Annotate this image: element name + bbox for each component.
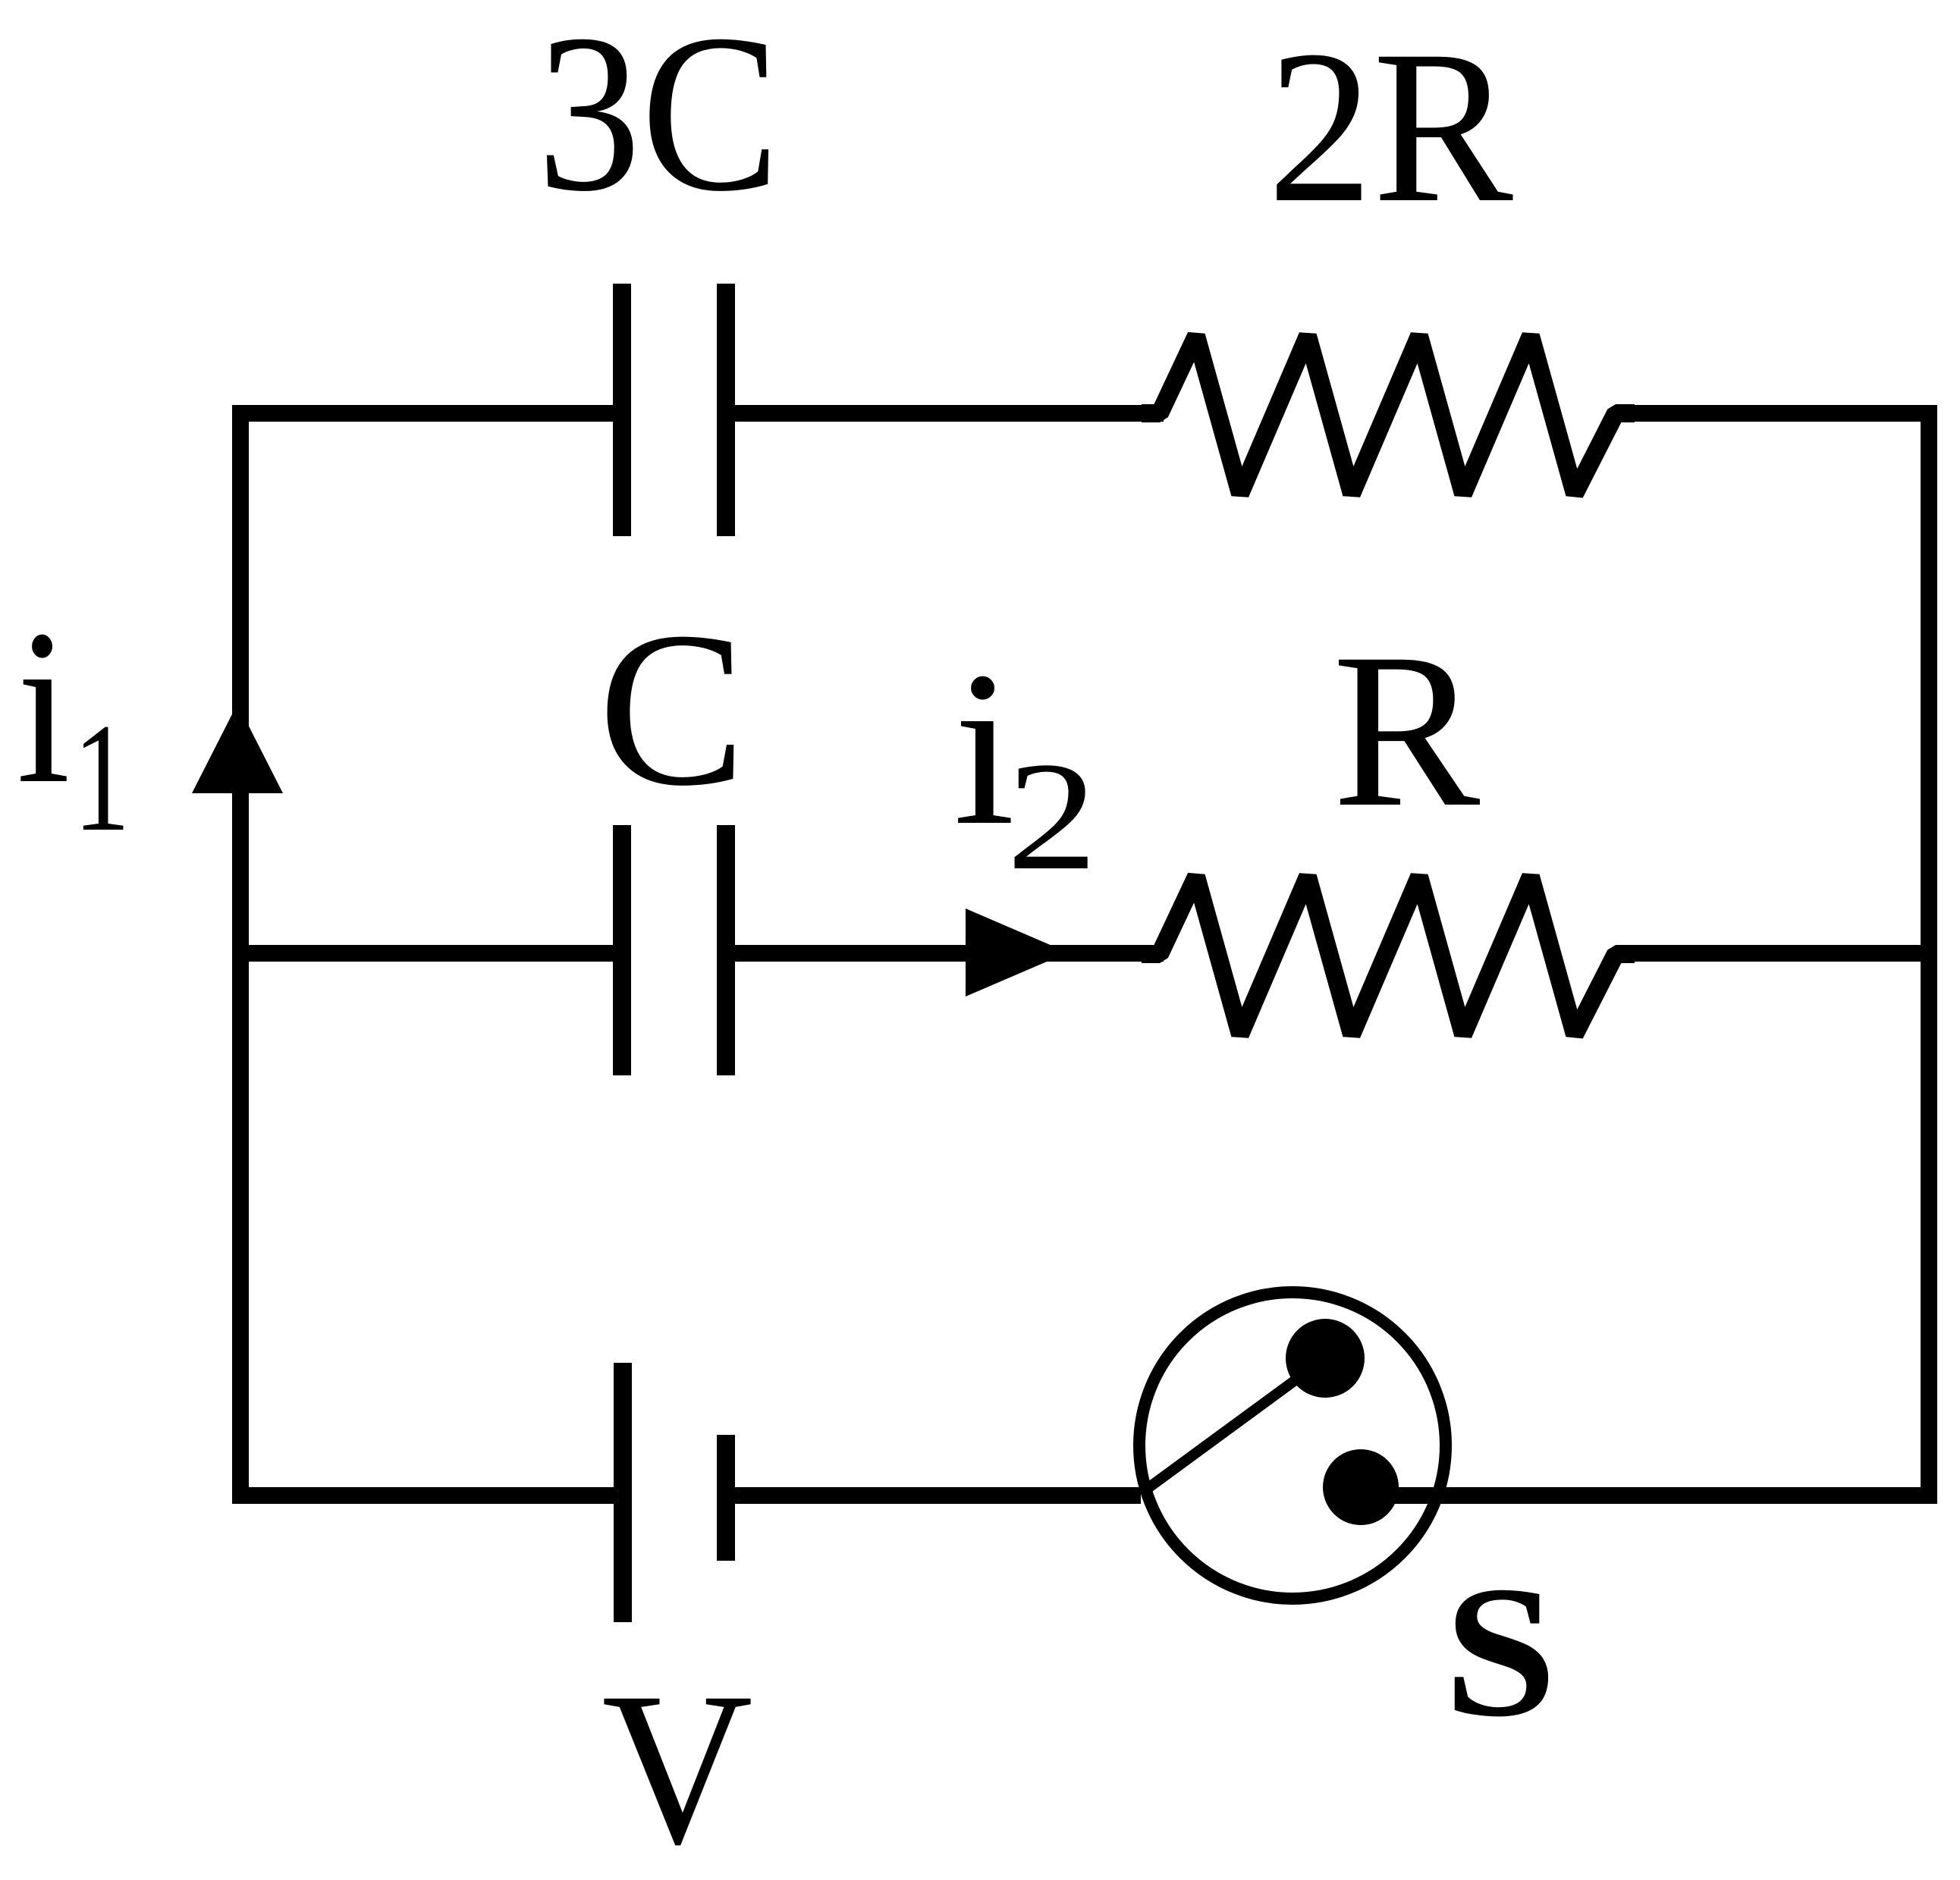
- svg-text:2R: 2R: [1267, 6, 1514, 248]
- resistor 2R zigzag: [1142, 336, 1635, 494]
- switch S upper contact dot: [1286, 1319, 1365, 1398]
- svg-text:S: S: [1444, 1547, 1557, 1756]
- capacitor 3C right plate: [717, 284, 735, 536]
- svg-text:V: V: [602, 1647, 752, 1880]
- resistor R zigzag: [1142, 877, 1635, 1034]
- svg-text:i: i: [953, 626, 1015, 871]
- capacitor C right plate: [717, 825, 735, 1075]
- svg-text:C: C: [598, 587, 746, 832]
- svg-text:i: i: [17, 585, 71, 830]
- switch S lower contact dot: [1323, 1449, 1399, 1525]
- svg-text:1: 1: [74, 691, 130, 863]
- wire: top-right horizontal from 2R to right branch: [1616, 405, 1937, 422]
- svg-text:3C: 3C: [537, 0, 780, 237]
- wire: top middle horizontal from 3C to resistor 2R: [726, 405, 1164, 422]
- wire: bottom-right horizontal from switch to right branch: [1361, 1487, 1937, 1504]
- battery V long plate: [614, 1363, 632, 1622]
- wire: middle-left horizontal to capacitor C: [232, 945, 620, 962]
- wire: middle-right horizontal from R to right branch: [1616, 945, 1937, 962]
- battery V short plate: [717, 1435, 735, 1561]
- switch S circle: [1139, 1292, 1446, 1599]
- wire: bottom-left horizontal to battery V: [232, 1487, 620, 1504]
- switch S lever: [1143, 1358, 1325, 1492]
- svg-text:2: 2: [1007, 730, 1098, 902]
- wire: right vertical branch: [1921, 405, 1937, 1504]
- current arrow i1 head: [192, 704, 283, 793]
- svg-text:R: R: [1333, 608, 1481, 853]
- wire: bottom horizontal from battery to switch S: [726, 1487, 1141, 1504]
- wire: top-left horizontal to capacitor 3C: [232, 405, 620, 422]
- capacitor C left plate: [613, 825, 631, 1075]
- wire: left vertical branch (i1 branch): [232, 405, 249, 1504]
- wire: middle horizontal from C to resistor R: [726, 945, 1164, 962]
- capacitor 3C left plate: [613, 284, 631, 536]
- current arrow i2 head: [966, 909, 1068, 996]
